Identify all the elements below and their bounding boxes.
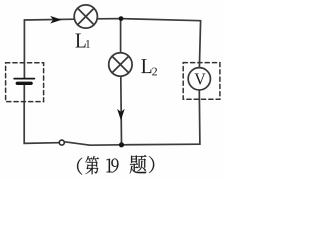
- caption char di (第): [85, 156, 99, 174]
- voltmeter (dashed box): [183, 63, 220, 100]
- wire: top horizontal from node A to top-right corner: [121, 19, 201, 21]
- caption close paren: [149, 156, 154, 173]
- wire: bottom horizontal from bottom-right corner to node B: [122, 143, 200, 146]
- wire: right vertical from voltmeter to bottom-right corner: [198, 91, 201, 145]
- lamp L2 (circle with X): [109, 53, 132, 76]
- battery negative plate (short thick): [17, 82, 31, 85]
- battery cell (dashed box): [6, 63, 44, 102]
- battery positive plate (long thin): [14, 78, 34, 80]
- current direction arrow on top wire (points right): [50, 16, 62, 24]
- caption open paren: [77, 158, 82, 175]
- current direction arrow on L2 branch (points down): [117, 109, 125, 121]
- label L1: [75, 33, 90, 47]
- label L2: [141, 59, 157, 75]
- wire: right vertical from top-right corner to voltmeter: [199, 21, 200, 67]
- switch lever: [65, 142, 90, 145]
- lamp L1 (circle with X): [74, 5, 97, 28]
- wire: bottom horizontal from switch lever to node B: [90, 144, 122, 146]
- caption digit 9: [111, 159, 118, 173]
- node A (top junction dot): [119, 16, 124, 21]
- voltmeter circle: [188, 68, 210, 90]
- wire: branch from node A down to lamp L2: [120, 19, 122, 53]
- caption digit 1: [106, 159, 112, 173]
- wire: branch from lamp L2 down to node B: [120, 77, 123, 145]
- wire: bottom horizontal from switch to bottom-left corner and up: [24, 102, 59, 144]
- caption char ti (题): [130, 155, 147, 174]
- wire: left vertical from battery - terminal down: [23, 84, 25, 101]
- wire: left vertical from battery + terminal up to top-left corner: [23, 20, 25, 78]
- node B (bottom junction dot): [119, 142, 124, 147]
- wire: top horizontal from L1 to node A: [97, 18, 121, 20]
- voltmeter letter V: [194, 74, 205, 85]
- switch (open circle + lever): [59, 140, 64, 145]
- wire: top horizontal from top-left corner to lamp L1: [24, 18, 75, 21]
- caption (第 19 题): [77, 155, 154, 175]
